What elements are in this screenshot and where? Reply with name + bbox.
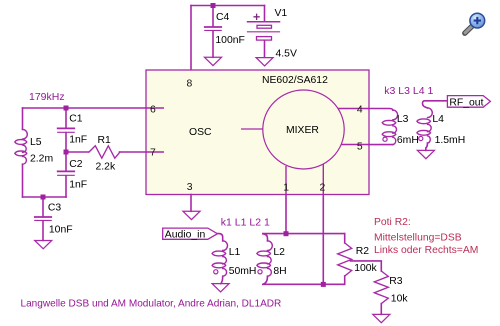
svg-text:Langwelle DSB und AM Modulator: Langwelle DSB und AM Modulator, Andre Ad…	[21, 299, 282, 310]
svg-text:100nF: 100nF	[215, 35, 244, 46]
resistor R1	[66, 146, 146, 158]
junction node audio rail / pin1	[284, 231, 289, 236]
capacitor C4	[205, 27, 221, 30]
svg-text:Links oder Rechts=AM: Links oder Rechts=AM	[374, 245, 478, 256]
junction node C1/C2/R1	[64, 150, 69, 155]
ground under R3	[373, 314, 390, 322]
inductor L1	[212, 241, 227, 284]
wire top rail	[191, 5, 265, 7]
ground under L4	[417, 150, 434, 158]
svg-text:Poti R2:: Poti R2:	[374, 217, 411, 228]
resistor R3	[374, 271, 388, 314]
wire L4 to RF_out	[423, 101, 448, 108]
zoom icon magnifier	[465, 13, 485, 33]
svg-text:R3: R3	[389, 276, 403, 287]
svg-text:L5: L5	[30, 137, 42, 148]
port RF_out	[447, 96, 490, 109]
wire audio bottom rail	[263, 283, 345, 285]
svg-text:8: 8	[187, 79, 193, 90]
IC U1 NE602/SA612 body	[146, 70, 369, 195]
pin 5 stub	[341, 144, 369, 146]
pin 7 stub	[146, 151, 164, 153]
svg-text:2.2m: 2.2m	[30, 153, 53, 164]
ground under C4	[205, 57, 222, 65]
svg-text:Mittelstellung=DSB: Mittelstellung=DSB	[374, 233, 462, 244]
wire R2 tap to R3	[351, 261, 382, 271]
svg-text:k3 L3 L4 1: k3 L3 L4 1	[384, 85, 433, 97]
junction node bottom rail / pin2	[321, 282, 326, 287]
capacitor C2	[58, 152, 74, 197]
inductor L4	[417, 108, 432, 150]
svg-text:1nF: 1nF	[69, 180, 87, 191]
svg-text:1: 1	[283, 183, 289, 194]
svg-text:4.5V: 4.5V	[276, 49, 297, 60]
svg-text:C4: C4	[216, 12, 230, 23]
ground under C3	[35, 241, 52, 249]
svg-text:k1 L1 L2 1: k1 L1 L2 1	[221, 217, 270, 229]
osc to mixer line	[241, 128, 263, 130]
svg-text:7: 7	[150, 148, 156, 159]
svg-text:Audio_in: Audio_in	[165, 230, 206, 241]
svg-text:2: 2	[320, 182, 326, 193]
svg-text:10nF: 10nF	[49, 224, 73, 235]
svg-text:C1: C1	[69, 113, 83, 124]
svg-text:R2: R2	[356, 246, 370, 257]
pin 6 stub	[146, 107, 164, 109]
inductor L5	[15, 108, 28, 197]
svg-text:4: 4	[357, 105, 363, 116]
pin 1 inner line	[285, 166, 287, 195]
svg-text:50mH: 50mH	[229, 266, 257, 277]
ground under pin 3	[183, 211, 200, 219]
wire tank bottom rail	[23, 196, 67, 198]
svg-text:8H: 8H	[273, 266, 286, 277]
junction node tank rail / C1	[64, 106, 69, 111]
svg-text:10k: 10k	[391, 294, 409, 305]
ground under L1	[212, 284, 229, 292]
wire pin8 vertical	[190, 6, 192, 71]
pin 2 inner line	[322, 164, 324, 195]
svg-text:OSC: OSC	[189, 127, 212, 138]
junction node bottom rail / C3	[41, 195, 46, 200]
capacitor C1	[58, 108, 74, 152]
svg-text:2.2k: 2.2k	[96, 162, 116, 173]
svg-text:3: 3	[187, 182, 193, 193]
capacitor C3	[35, 197, 51, 241]
wire audio top rail	[263, 233, 345, 235]
wire C4 stem top	[212, 6, 214, 27]
resistor R2	[338, 234, 352, 285]
svg-text:V1: V1	[275, 8, 288, 19]
svg-text:MIXER: MIXER	[286, 125, 319, 136]
svg-text:100k: 100k	[354, 263, 377, 274]
svg-text:R1: R1	[98, 135, 112, 146]
inductor L3	[369, 110, 398, 145]
svg-text:5: 5	[357, 141, 363, 152]
svg-text:RF_out: RF_out	[449, 97, 483, 108]
svg-text:NE602/SA612: NE602/SA612	[262, 75, 328, 86]
svg-text:L1: L1	[229, 247, 241, 258]
wire tank top rail	[23, 107, 147, 109]
svg-text:1.5mH: 1.5mH	[435, 135, 466, 146]
svg-text:6mH: 6mH	[397, 135, 419, 146]
pin 4 stub	[338, 108, 369, 110]
ground under V1	[256, 58, 273, 66]
svg-text:6: 6	[150, 105, 156, 116]
svg-text:L3: L3	[397, 114, 409, 125]
wire C4 stem bottom	[212, 31, 214, 57]
wire pin1 down	[285, 195, 287, 234]
wire port to L1	[217, 234, 222, 241]
inductor L2	[257, 234, 272, 285]
mixer circle	[263, 90, 344, 169]
svg-text:1nF: 1nF	[69, 135, 87, 146]
battery V1	[248, 14, 280, 40]
port Audio_in	[163, 228, 218, 240]
wire V1 stem top	[264, 6, 266, 22]
svg-text:L2: L2	[273, 247, 285, 258]
wire pin3 down	[190, 195, 192, 212]
wire pin2 down	[322, 195, 324, 285]
wire V1 stem bottom	[264, 41, 266, 58]
junction node top rail / C4	[211, 3, 216, 8]
wire pin4 to L3	[369, 109, 393, 111]
svg-text:C3: C3	[48, 203, 62, 214]
svg-text:L4: L4	[432, 114, 444, 125]
svg-text:C2: C2	[69, 159, 83, 170]
svg-text:179kHz: 179kHz	[29, 91, 65, 103]
